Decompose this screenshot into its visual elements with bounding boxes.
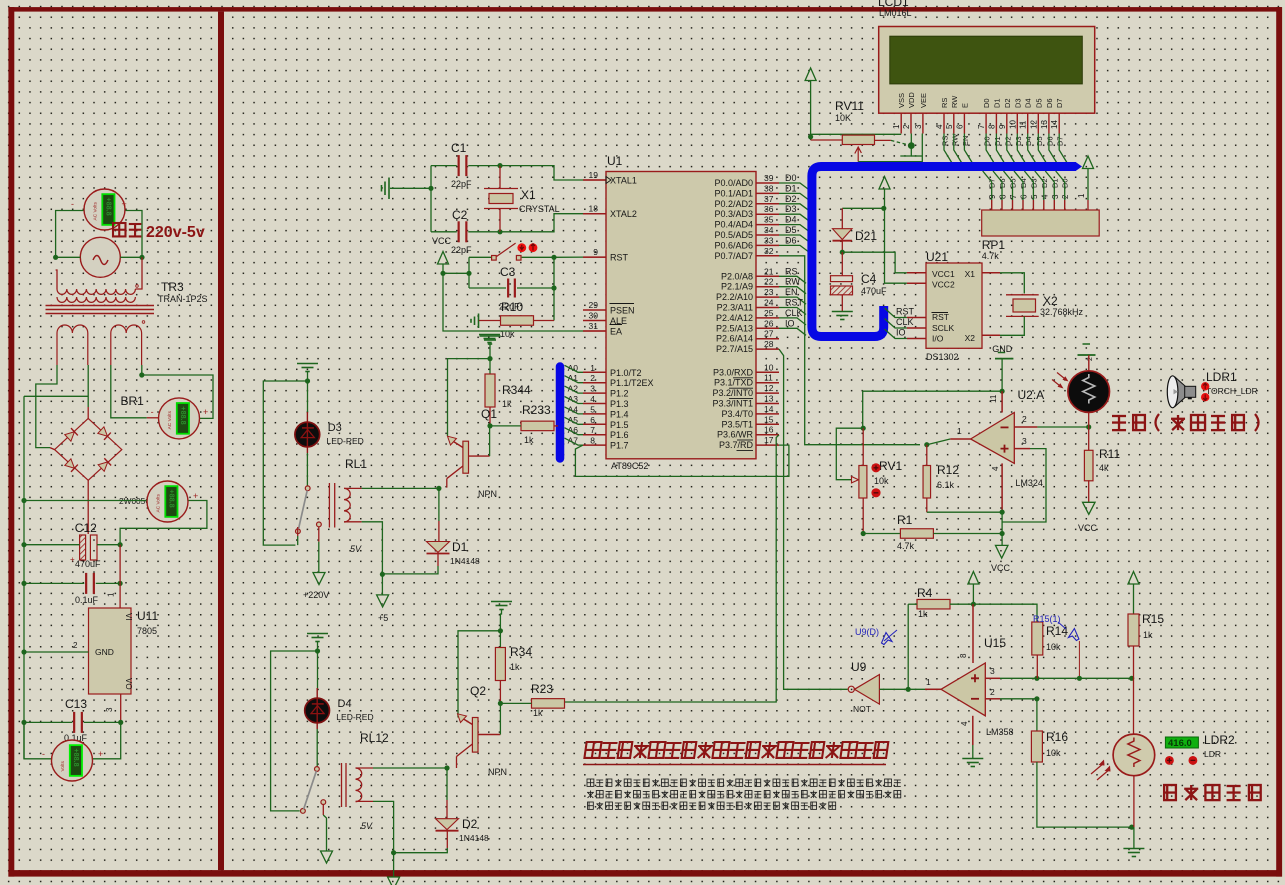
wire — [841, 295, 843, 312]
node junction — [487, 423, 492, 428]
wire — [87, 480, 89, 534]
wire — [297, 527, 299, 536]
svg-text:AC Volts: AC Volts — [93, 202, 99, 221]
wire — [1000, 698, 1037, 700]
bus exit wire — [885, 329, 907, 339]
wire — [446, 831, 448, 848]
ground (U15) — [962, 758, 983, 760]
wire — [863, 533, 900, 535]
node junction — [924, 442, 929, 447]
svg-text:VCC: VCC — [432, 236, 452, 246]
svg-text:IO: IO — [896, 328, 906, 338]
svg-text:RST: RST — [785, 298, 804, 308]
ground (above R34) — [491, 601, 512, 603]
wire — [24, 395, 88, 397]
svg-text:1: 1 — [107, 592, 116, 597]
svg-text:D4: D4 — [1024, 98, 1033, 108]
U1 pin 17 P3.7/RD — [756, 444, 779, 446]
net D5 bus entry wire — [779, 235, 808, 241]
svg-text:P1.4: P1.4 — [610, 409, 629, 419]
node junction — [971, 602, 976, 607]
svg-text:P2.1/A9: P2.1/A9 — [721, 282, 753, 292]
wire P3.6 net down to R23 — [565, 435, 779, 702]
net D2 bus entry wire — [779, 204, 808, 210]
wire — [437, 554, 439, 567]
wire to XTAL1 pin — [500, 166, 585, 180]
node junction — [1034, 696, 1039, 701]
svg-text:5V: 5V — [350, 544, 362, 554]
svg-text:D2: D2 — [785, 194, 797, 204]
wire op-amp supply loop — [863, 391, 1002, 428]
svg-text:C12: C12 — [75, 521, 97, 535]
net D3 bus entry wire — [1017, 134, 1025, 164]
svg-text:2: 2 — [990, 687, 995, 697]
svg-text:6.1k: 6.1k — [937, 480, 955, 490]
LDR2 pads (red) — [1165, 756, 1174, 765]
svg-text:LDR: LDR — [1204, 749, 1221, 759]
svg-text:U2:A: U2:A — [1018, 388, 1045, 402]
svg-text:RL12: RL12 — [360, 731, 389, 745]
svg-text:24: 24 — [764, 298, 774, 308]
svg-text:P0.3/AD3: P0.3/AD3 — [714, 209, 753, 219]
label 光控（光敏传感） — [1112, 416, 1126, 430]
svg-text:33: 33 — [764, 235, 774, 245]
svg-text:P2.3/A11: P2.3/A11 — [717, 303, 753, 313]
U1 pin 31 EA — [583, 330, 606, 332]
svg-text:C3: C3 — [500, 265, 516, 279]
svg-text:PSEN: PSEN — [610, 306, 635, 316]
wire emitter net Q1 — [448, 359, 491, 436]
wire — [885, 189, 907, 283]
capacitor 0.1uF (upper) — [85, 573, 87, 594]
net D6 bus entry wire — [779, 245, 808, 251]
svg-text:5: 5 — [590, 404, 595, 414]
display 416.0 — [1165, 737, 1198, 748]
svg-text:1k: 1k — [502, 399, 512, 409]
svg-text:IO: IO — [785, 318, 795, 328]
svg-text:EA: EA — [610, 327, 622, 337]
wire — [24, 721, 72, 723]
wire — [879, 688, 941, 690]
wire — [344, 521, 362, 523]
power flag VCC (LCD) — [805, 68, 816, 81]
node junction — [1000, 509, 1005, 514]
svg-text:RST: RST — [896, 307, 915, 317]
svg-text:+: + — [193, 491, 198, 501]
svg-text:RL1: RL1 — [345, 457, 367, 471]
net CLK bus entry wire — [779, 318, 806, 325]
power flag +5 — [377, 595, 389, 607]
wire — [438, 488, 440, 521]
svg-text:P2.2/A10: P2.2/A10 — [716, 292, 753, 302]
bus P1 (blue vertical) — [556, 367, 565, 459]
wire — [317, 642, 319, 689]
svg-text:P0.1/AD1: P0.1/AD1 — [714, 188, 753, 198]
U1 pin 24 P2.3/A11 — [756, 307, 779, 309]
svg-text:AT89C52: AT89C52 — [611, 461, 648, 471]
node junction — [380, 572, 385, 577]
bus entry wire — [565, 386, 584, 393]
svg-text:11: 11 — [989, 394, 998, 403]
transformer TR3 secondary coils — [57, 325, 88, 365]
wire — [1000, 677, 1132, 679]
wire — [120, 694, 122, 722]
resistor R344 1k — [485, 374, 495, 407]
ground (below C3) — [479, 334, 500, 336]
svg-text:R12: R12 — [937, 463, 959, 477]
U1 pin 36 P0.3/AD3 — [756, 213, 779, 215]
wire — [1133, 678, 1135, 734]
torch icon — [1176, 378, 1186, 407]
resistor pack RP1 4.7k — [982, 210, 1099, 236]
wire — [1001, 512, 1003, 545]
svg-text:21: 21 — [764, 266, 774, 276]
wire emitter net Q2 — [458, 631, 500, 718]
svg-text:XTAL1: XTAL1 — [610, 176, 637, 186]
wire — [1001, 359, 1003, 392]
svg-text:31: 31 — [589, 321, 599, 331]
U15 pin 4 stub — [972, 716, 974, 745]
wire — [1037, 426, 1088, 428]
svg-text:15: 15 — [764, 414, 774, 424]
svg-text:P0.4/AD4: P0.4/AD4 — [714, 220, 753, 230]
svg-text:13: 13 — [1040, 120, 1049, 129]
svg-text:34: 34 — [764, 225, 774, 235]
svg-text:10k: 10k — [1046, 642, 1061, 652]
svg-text:1k: 1k — [524, 435, 534, 445]
node junction — [487, 356, 492, 361]
svg-text:1: 1 — [590, 363, 595, 373]
svg-text:2: 2 — [1087, 357, 1094, 361]
capacitor C4 470uF — [841, 252, 843, 276]
bus entry wire — [565, 397, 584, 404]
svg-text:4: 4 — [590, 394, 595, 404]
svg-text:R10: R10 — [501, 300, 523, 314]
U1 pin 28 P2.7/A15 — [756, 348, 779, 350]
wire D21 to VCC1 — [842, 252, 907, 273]
svg-text:10: 10 — [1008, 120, 1017, 129]
LDR2 sound arrows — [1091, 763, 1110, 780]
node junction — [861, 426, 866, 431]
net RW bus entry wire — [779, 287, 806, 294]
svg-text:4.7k: 4.7k — [982, 251, 1000, 261]
wire — [318, 527, 320, 542]
wire — [50, 448, 55, 450]
svg-text:D3: D3 — [1014, 136, 1023, 146]
svg-text:3: 3 — [590, 384, 595, 394]
U21 pin RST — [907, 317, 926, 319]
label 电源220v-5v — [113, 223, 125, 236]
node junction — [906, 687, 911, 692]
wire — [499, 681, 501, 704]
power flag VCC (RP1) — [1083, 156, 1094, 169]
svg-text:D4: D4 — [338, 698, 352, 710]
U1 pin 5 P1.4 — [583, 413, 606, 415]
LDR1 light arrows — [1052, 373, 1067, 388]
svg-text:P1.7: P1.7 — [610, 441, 629, 451]
svg-text:P1.5: P1.5 — [610, 420, 629, 430]
svg-text:D6: D6 — [1045, 98, 1054, 108]
power flag VCC (R11) — [1083, 502, 1096, 514]
wire — [468, 257, 470, 288]
voltmeter meter4 (Volts) — [52, 740, 93, 781]
svg-text:VI: VI — [124, 613, 133, 621]
transformer TR3 primary — [57, 289, 135, 302]
wire — [810, 81, 812, 141]
wire — [56, 270, 57, 289]
U1 pin 16 P3.6/WR — [756, 434, 779, 436]
left power rail wire — [23, 396, 25, 759]
svg-text:8: 8 — [987, 124, 996, 129]
wire RV1 wiper loop — [836, 428, 863, 480]
U1 pin 14 P3.4/T0 — [756, 413, 779, 415]
bus entry wire — [565, 438, 584, 445]
svg-text:D3: D3 — [328, 422, 342, 434]
node junction — [305, 378, 310, 383]
svg-text:-: - — [42, 749, 45, 759]
svg-text:9: 9 — [998, 124, 1007, 129]
bus exit wire — [885, 319, 907, 329]
U2 pin 3 non-inverting — [1014, 448, 1030, 450]
wire — [431, 231, 457, 233]
bus entry wire — [565, 365, 584, 372]
U1 pin 30 ALE — [583, 320, 606, 322]
svg-text:D2: D2 — [462, 817, 478, 831]
svg-text:2: 2 — [73, 641, 78, 650]
net EN bus entry wire — [964, 134, 972, 164]
svg-text:D1: D1 — [785, 183, 797, 193]
bus entry wire — [565, 428, 584, 435]
svg-text:VO: VO — [124, 678, 133, 690]
node junction — [139, 372, 144, 377]
U1 pin 13 P3.3/INT1 — [756, 403, 779, 405]
resistor R34 1k — [495, 648, 505, 681]
svg-text:D3: D3 — [785, 204, 797, 214]
wire — [126, 211, 143, 258]
U1 pin 1 P1.0/T2 — [583, 371, 606, 373]
svg-text:AC Volts: AC Volts — [167, 410, 173, 429]
svg-text:P3.6/WR: P3.6/WR — [717, 430, 754, 440]
net RST bus entry wire — [779, 308, 806, 315]
wire — [1133, 776, 1135, 827]
svg-text:U1: U1 — [607, 154, 623, 168]
U15 pin 2 inverting — [985, 698, 1000, 700]
U1 pin 35 P0.4/AD4 — [756, 224, 779, 226]
svg-text:C1: C1 — [451, 141, 467, 155]
svg-text:26: 26 — [764, 318, 774, 328]
wire to XTAL2 pin — [500, 214, 585, 232]
wire to RST pin — [554, 256, 585, 258]
wire — [933, 533, 1002, 535]
svg-text:D4: D4 — [785, 215, 797, 225]
svg-text:2: 2 — [1022, 414, 1027, 424]
bridge diode D(bottom-left) — [64, 458, 77, 471]
svg-text:13: 13 — [764, 394, 774, 404]
svg-text:P0.5/AD5: P0.5/AD5 — [714, 230, 753, 240]
svg-text:25: 25 — [764, 308, 774, 318]
svg-text:D6: D6 — [1045, 136, 1054, 146]
node junction — [440, 271, 445, 276]
node junction — [53, 255, 58, 260]
wire — [927, 439, 950, 445]
svg-text:TR3: TR3 — [161, 280, 184, 294]
U1 pin 18 XTAL2 — [583, 213, 606, 215]
svg-text:C13: C13 — [65, 697, 87, 711]
node junction — [551, 255, 556, 260]
net D6 bus entry wire — [1049, 134, 1057, 164]
wire — [24, 544, 80, 546]
svg-text:RP1: RP1 — [982, 238, 1006, 252]
bus entry wire — [565, 407, 584, 414]
svg-text:1k: 1k — [533, 708, 543, 718]
svg-text:470uF: 470uF — [861, 286, 887, 296]
net D4 bus entry wire — [779, 225, 808, 231]
U1 pin 3 P1.2 — [583, 392, 606, 394]
svg-text:D2: D2 — [1003, 136, 1012, 146]
svg-text:4: 4 — [991, 466, 1000, 471]
wire — [119, 545, 121, 608]
wire — [490, 425, 521, 427]
svg-text:5V: 5V — [361, 821, 373, 831]
svg-text:RV1: RV1 — [879, 459, 902, 473]
wire lamp loop — [263, 381, 307, 545]
svg-text:XTAL2: XTAL2 — [610, 209, 637, 219]
U1 pin 26 P2.5/A13 — [756, 327, 779, 329]
svg-text:NPN: NPN — [488, 767, 507, 777]
ground (above R344) — [480, 335, 501, 337]
ground (LDR2) — [1123, 848, 1144, 850]
svg-text:CRYSTAL: CRYSTAL — [519, 204, 560, 214]
net D5 bus entry wire — [1038, 134, 1046, 164]
U1 pin 21 P2.0/A8 — [756, 275, 779, 277]
svg-text:U11: U11 — [137, 609, 158, 623]
svg-text:Q1: Q1 — [481, 407, 497, 421]
svg-text:P2.0/A8: P2.0/A8 — [721, 271, 753, 281]
bridge diode D(top-right) — [97, 426, 110, 439]
wire — [120, 256, 142, 258]
wire — [56, 211, 84, 258]
svg-text:+220V: +220V — [303, 590, 329, 600]
svg-text:D1: D1 — [993, 136, 1002, 146]
wire — [911, 155, 922, 157]
wire — [841, 241, 843, 253]
bus exit wire — [885, 308, 907, 318]
svg-text:P1.1/T2EX: P1.1/T2EX — [610, 378, 654, 388]
svg-text:R14: R14 — [1046, 624, 1068, 638]
node junction — [497, 163, 502, 168]
svg-text:6: 6 — [955, 124, 964, 129]
net RW bus entry wire — [954, 134, 962, 164]
node junction — [444, 765, 449, 770]
svg-text:0.1uF: 0.1uF — [75, 595, 99, 605]
node junction — [551, 285, 556, 290]
svg-text:RV11: RV11 — [835, 99, 864, 113]
svg-text:14: 14 — [1050, 120, 1059, 129]
U1 pin 38 P0.1/AD1 — [756, 192, 779, 194]
wire — [534, 320, 555, 322]
wire RV11 wiper to VEE — [858, 134, 922, 162]
svg-text:6: 6 — [590, 415, 595, 425]
wire — [500, 702, 531, 704]
wire — [1133, 827, 1135, 848]
crystal X2 32.768kHz — [982, 272, 1000, 274]
svg-text:12: 12 — [1029, 120, 1038, 129]
node junction — [118, 542, 123, 547]
U1 pin 22 P2.1/A9 — [756, 286, 779, 288]
svg-text:P2.5/A13: P2.5/A13 — [716, 323, 753, 333]
svg-text:1: 1 — [892, 124, 901, 129]
node A (C1/C2 left) — [428, 186, 433, 191]
svg-text:R23: R23 — [531, 682, 553, 696]
node junction — [466, 271, 471, 276]
U15 pin 3 non-inverting — [985, 677, 1000, 679]
svg-text:C4: C4 — [861, 272, 877, 286]
svg-text:D0: D0 — [983, 136, 992, 146]
svg-text:TRAN-1P2S: TRAN-1P2S — [158, 294, 208, 304]
svg-text:+88.8: +88.8 — [72, 749, 81, 767]
svg-text:D1: D1 — [992, 98, 1001, 108]
wire — [306, 453, 308, 486]
svg-text:D0: D0 — [982, 98, 991, 108]
LDR1 pads (red) — [1201, 382, 1209, 390]
svg-text:4k: 4k — [1099, 463, 1109, 473]
power flag VCC (U2) — [995, 545, 1008, 558]
wire — [344, 487, 362, 489]
svg-text:1N4148: 1N4148 — [459, 833, 489, 843]
title 基于单片机声光控智能路灯系统设计 — [584, 742, 888, 758]
svg-text:+88.8: +88.8 — [179, 406, 188, 424]
bus LCD (blue C-shape) — [812, 167, 1076, 337]
svg-text:LED-RED: LED-RED — [336, 712, 373, 722]
svg-text:+: + — [203, 407, 208, 417]
svg-text:220v-5v: 220v-5v — [146, 224, 205, 241]
ground (U21/U2) — [998, 352, 1005, 354]
relay RL12 switch — [315, 767, 320, 772]
svg-text:R11: R11 — [1099, 447, 1120, 461]
power flag VCC (R15) — [1128, 572, 1139, 585]
power flag VCC (U21) — [879, 177, 890, 190]
svg-text:RST: RST — [932, 312, 949, 322]
wire — [87, 365, 89, 407]
switch state dots (red) — [517, 243, 526, 252]
section divider line — [218, 12, 224, 871]
svg-text:R4: R4 — [917, 586, 933, 600]
wire — [431, 165, 457, 167]
wire — [430, 166, 432, 232]
description text — [587, 779, 594, 786]
svg-text:8: 8 — [999, 194, 1008, 199]
svg-text:11: 11 — [764, 373, 773, 383]
svg-text:P3.3/INT1: P3.3/INT1 — [712, 399, 753, 409]
wire — [322, 804, 324, 815]
svg-text:22: 22 — [764, 277, 774, 287]
svg-text:P1.2: P1.2 — [610, 389, 629, 399]
node junction — [118, 720, 123, 725]
svg-text:10k: 10k — [874, 476, 889, 486]
wire — [489, 407, 491, 426]
RV1 adjust dots (red) — [871, 463, 880, 472]
svg-text:1: 1 — [1077, 193, 1086, 198]
U1 pin 7 P1.6 — [583, 434, 606, 436]
svg-text:VSS: VSS — [897, 93, 906, 108]
svg-text:VDD: VDD — [907, 92, 916, 108]
U2 pin 1 output — [950, 438, 970, 440]
wire — [973, 604, 1037, 622]
wire pin17 loop below U1 — [575, 445, 789, 476]
U1 pin 8 P1.7 — [583, 444, 606, 446]
svg-text:4: 4 — [935, 124, 944, 129]
node junction — [1000, 389, 1005, 394]
